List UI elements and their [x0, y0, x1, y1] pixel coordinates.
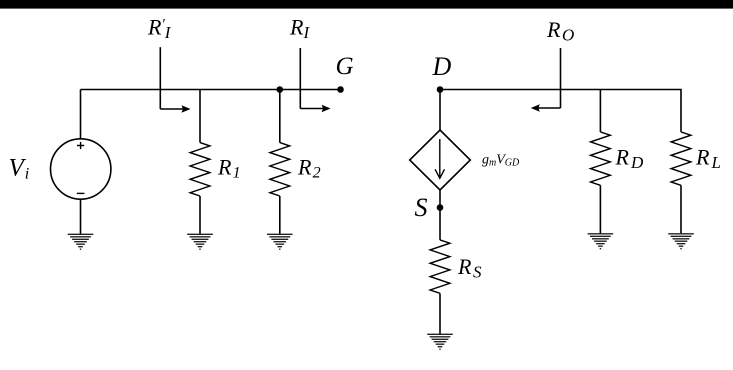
svg-text:R′I: R′I [147, 15, 172, 42]
svg-text:D: D [432, 52, 452, 81]
current source arrowhead [435, 169, 444, 178]
svg-text:R1: R1 [217, 154, 241, 181]
resistor R2 zigzag [270, 143, 290, 196]
wire: R2 top lead [279, 90, 281, 143]
ground below R1 [187, 234, 213, 249]
wire: R1 bottom lead [199, 196, 201, 234]
wire: RS bottom lead [439, 293, 441, 334]
wire: diamond bottom to RS [439, 190, 441, 240]
voltage source plus sign [77, 142, 84, 149]
RI-prime arrowhead [182, 105, 191, 112]
wire: source bottom lead [80, 199, 82, 234]
svg-text:RS: RS [457, 254, 482, 281]
wire: right circuit top rail [440, 90, 681, 132]
voltage source Vi circle [50, 139, 110, 199]
svg-text:G: G [336, 53, 354, 80]
voltage source minus sign [77, 192, 85, 194]
wire: D node to diamond top [439, 90, 441, 131]
ground below Vi [68, 234, 94, 249]
svg-text:RL: RL [695, 145, 721, 172]
wire: RL bottom lead [680, 185, 682, 234]
svg-text:S: S [415, 193, 428, 222]
wire: left circuit top rail [81, 89, 341, 91]
RI probe line [299, 48, 301, 109]
wire: RD top lead [599, 90, 601, 132]
top black bar [0, 0, 733, 9]
resistor RS zigzag [430, 240, 450, 293]
svg-text:R2: R2 [297, 154, 321, 181]
dependent current source diamond [410, 130, 471, 190]
node D dot [437, 86, 444, 93]
ground below R2 [267, 234, 293, 249]
node S dot [437, 204, 444, 211]
resistor R1 zigzag [190, 143, 210, 196]
resistor RD zigzag [591, 132, 611, 185]
ground below RD [588, 234, 614, 249]
RI probe arrow shaft [300, 108, 323, 110]
svg-text:RD: RD [615, 145, 644, 172]
ground below RL [668, 234, 694, 249]
RI-prime probe arrow shaft [160, 108, 183, 110]
RO arrowhead (left) [531, 104, 540, 111]
wire: RD bottom lead [599, 185, 601, 234]
ground below RS [427, 334, 453, 349]
RO probe line [560, 48, 562, 108]
wire: R1 top lead [199, 90, 201, 143]
svg-text:RI: RI [289, 15, 310, 42]
RI-prime probe line [159, 47, 161, 109]
node junction dot R2/top rail [277, 86, 284, 93]
wire: source top lead [80, 90, 82, 139]
wire: R2 bottom lead [279, 196, 281, 234]
svg-text:Vi: Vi [9, 155, 30, 183]
resistor RL zigzag [671, 132, 691, 185]
svg-text:gmVGD: gmVGD [482, 153, 520, 169]
current source arrow shaft [439, 139, 441, 177]
node G dot [337, 86, 344, 93]
svg-text:RO: RO [546, 17, 574, 44]
RI arrowhead [322, 105, 331, 112]
RO probe arrow shaft [538, 107, 561, 109]
